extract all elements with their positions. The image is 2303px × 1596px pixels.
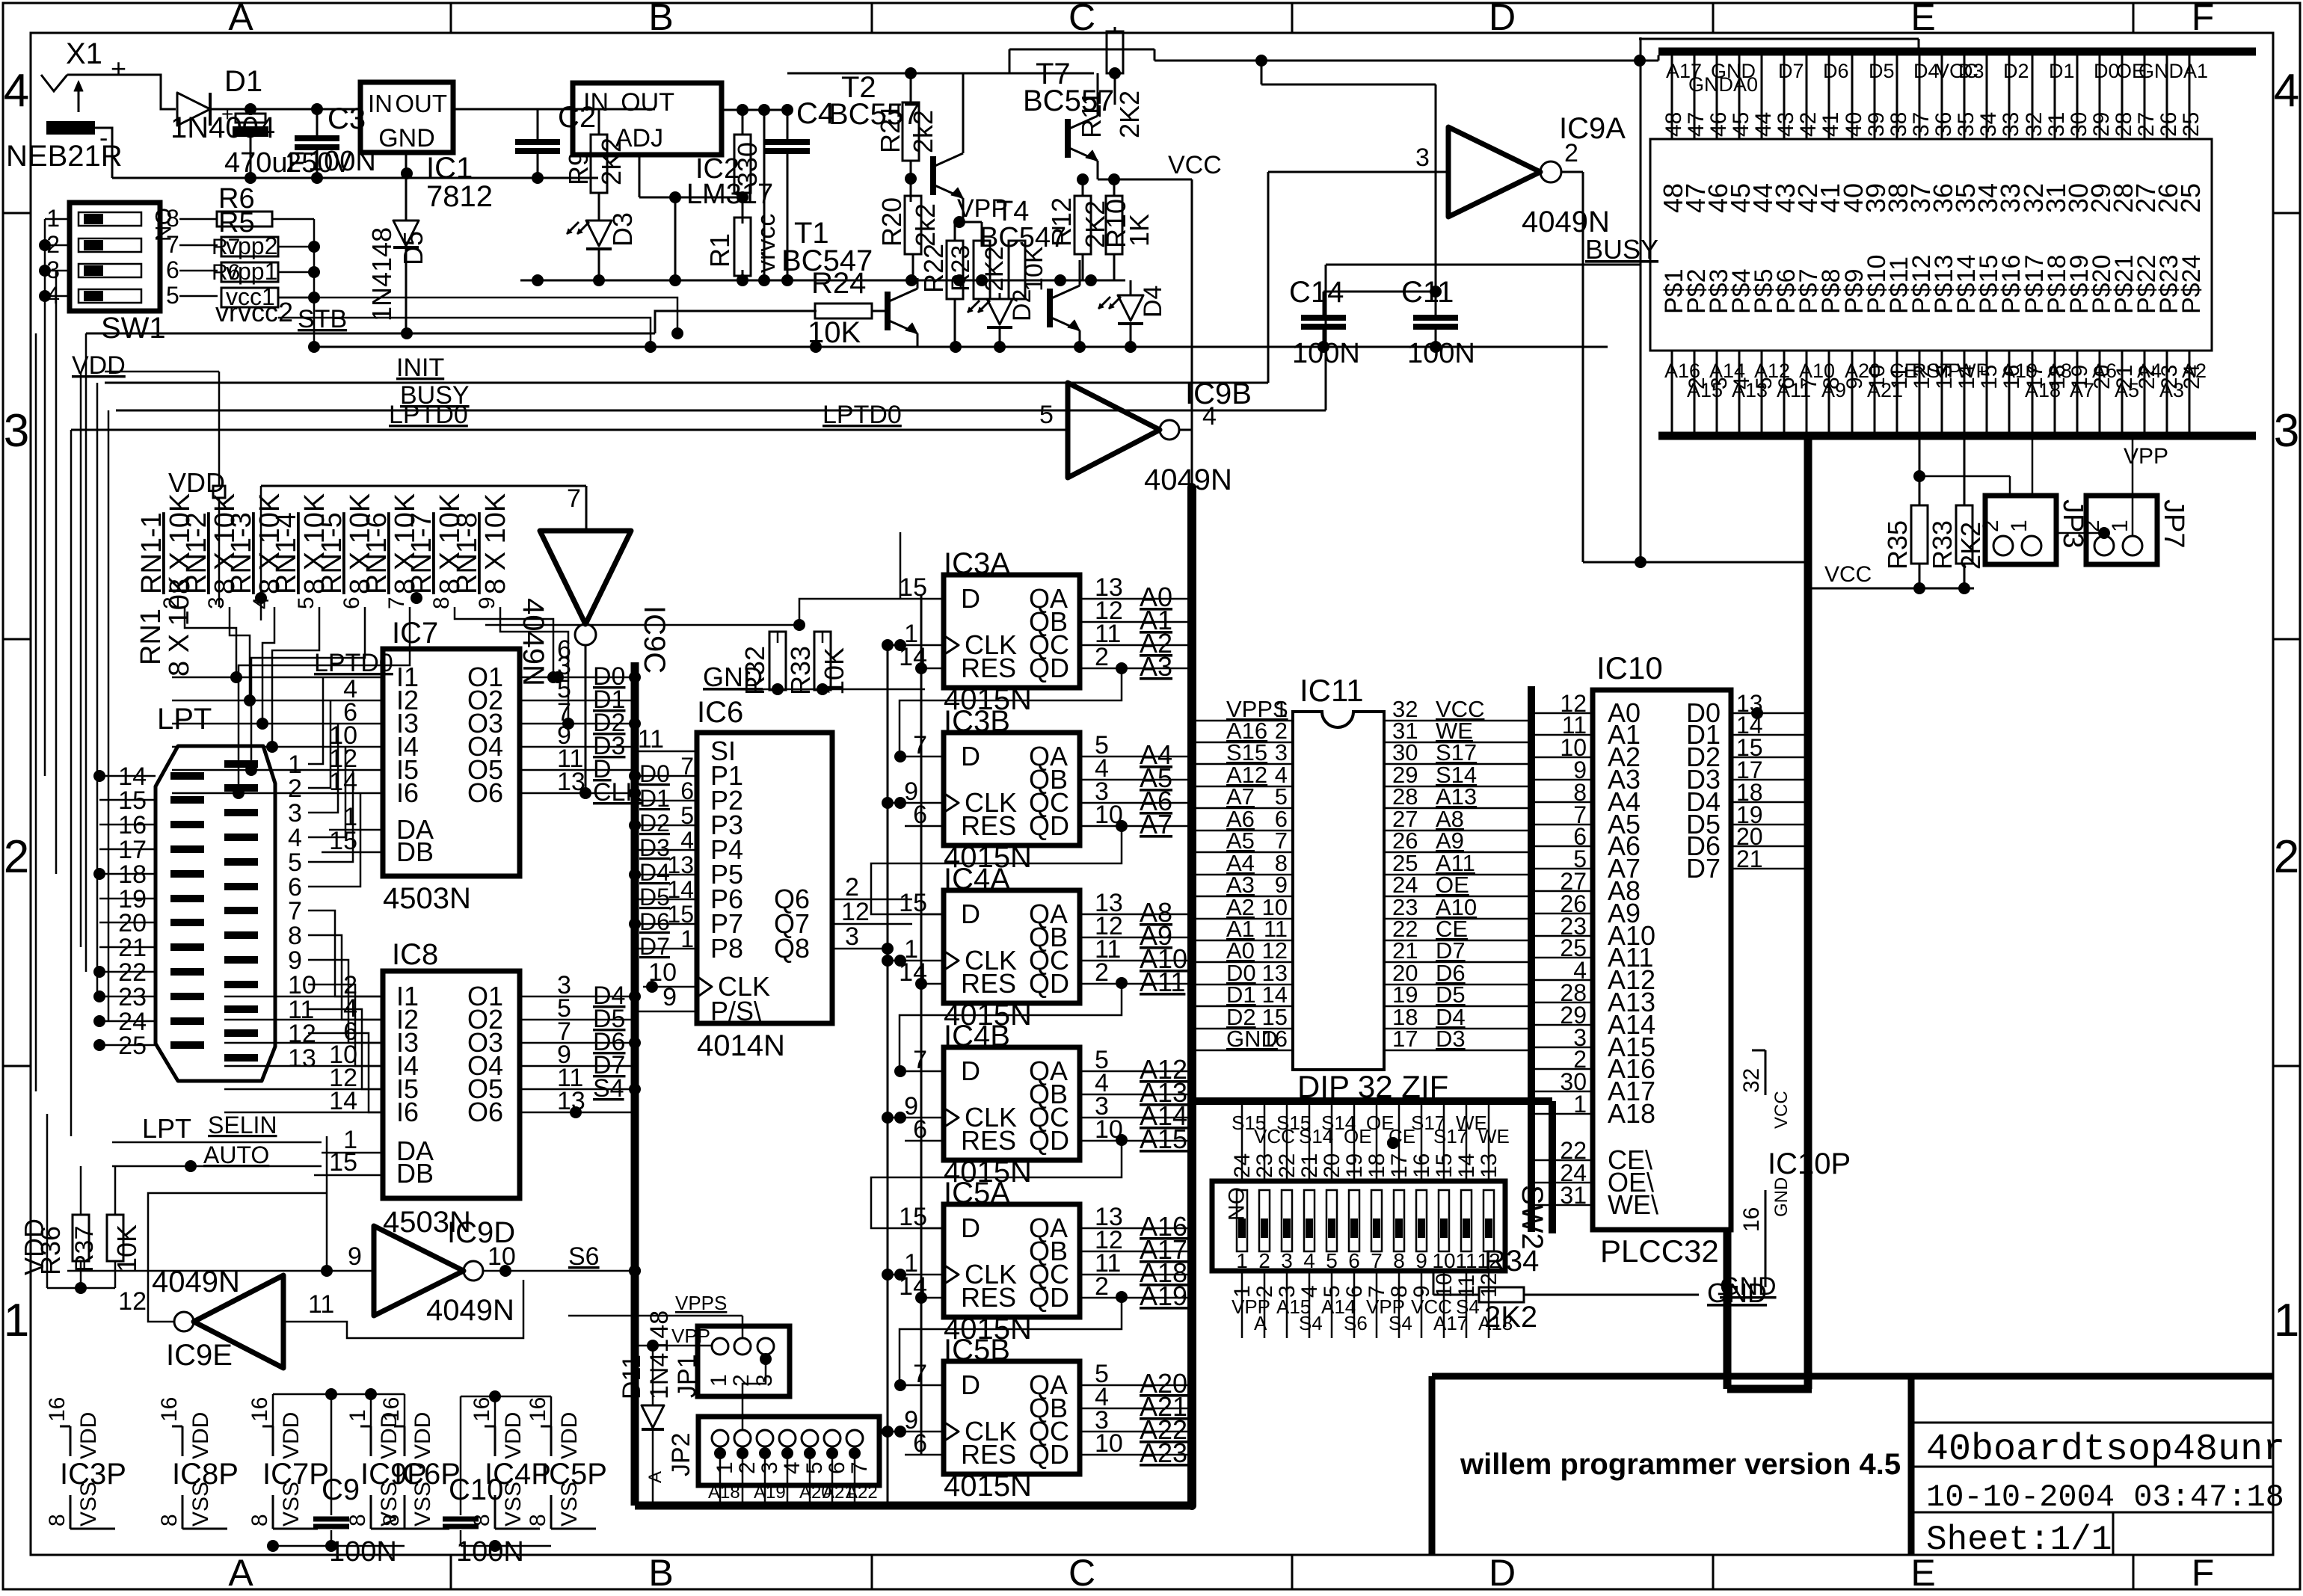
- svg-text:RES: RES: [961, 653, 1016, 683]
- svg-text:31: 31: [1560, 1182, 1587, 1209]
- svg-text:2: 2: [1095, 958, 1109, 987]
- svg-text:S4: S4: [593, 1074, 624, 1103]
- svg-text:25: 25: [2175, 183, 2206, 213]
- svg-text:IC3A: IC3A: [944, 547, 1010, 580]
- svg-text:VSS: VSS: [501, 1482, 526, 1526]
- svg-text:6: 6: [680, 777, 694, 804]
- svg-text:1: 1: [1573, 1091, 1587, 1118]
- svg-text:RN1: RN1: [135, 608, 167, 665]
- svg-text:4049N: 4049N: [1522, 206, 1610, 238]
- svg-text:25: 25: [2179, 112, 2204, 137]
- svg-text:D5: D5: [398, 231, 428, 265]
- svg-text:1K: 1K: [1124, 214, 1154, 247]
- svg-text:7: 7: [847, 1461, 872, 1474]
- svg-text:R36: R36: [35, 1226, 66, 1275]
- svg-text:R21: R21: [875, 104, 905, 153]
- svg-text:A: A: [1254, 1312, 1267, 1334]
- svg-text:16: 16: [1262, 1026, 1288, 1052]
- svg-text:15: 15: [899, 1203, 927, 1231]
- svg-text:A: A: [228, 0, 253, 38]
- svg-text:IC10: IC10: [1596, 650, 1663, 685]
- svg-text:8 X 10K: 8 X 10K: [164, 576, 195, 677]
- svg-text:E: E: [1910, 0, 1935, 38]
- svg-text:7: 7: [913, 731, 927, 760]
- svg-text:13: 13: [288, 1044, 316, 1073]
- svg-text:willem programmer version 4.5: willem programmer version 4.5: [1460, 1448, 1901, 1481]
- svg-text:6: 6: [825, 1461, 849, 1474]
- svg-text:13: 13: [667, 851, 694, 878]
- svg-text:QD: QD: [1029, 1439, 1069, 1470]
- svg-text:IC7: IC7: [392, 617, 438, 650]
- svg-text:RES: RES: [961, 1282, 1016, 1313]
- svg-text:100N: 100N: [329, 1536, 397, 1568]
- svg-text:D7: D7: [639, 933, 670, 960]
- svg-text:8: 8: [379, 1514, 404, 1526]
- svg-text:6: 6: [339, 597, 364, 609]
- svg-text:48: 48: [1661, 112, 1686, 137]
- svg-text:5: 5: [166, 282, 179, 309]
- svg-text:D6: D6: [1823, 60, 1849, 82]
- svg-text:ON: ON: [1223, 1187, 1248, 1221]
- svg-text:D2: D2: [639, 810, 670, 836]
- svg-text:2: 2: [735, 1461, 760, 1474]
- svg-text:A3: A3: [1140, 651, 1172, 682]
- svg-text:RES: RES: [961, 1439, 1016, 1470]
- svg-text:IC4B: IC4B: [944, 1020, 1010, 1053]
- svg-text:15: 15: [667, 901, 694, 928]
- svg-text:6: 6: [166, 256, 179, 283]
- svg-text:VCC: VCC: [1168, 151, 1222, 179]
- svg-text:IC9D: IC9D: [447, 1216, 515, 1249]
- svg-text:+: +: [221, 102, 233, 126]
- svg-text:2K2: 2K2: [1114, 90, 1145, 138]
- svg-text:RES: RES: [961, 1125, 1016, 1156]
- svg-text:D: D: [961, 741, 980, 771]
- svg-text:1: 1: [345, 1409, 370, 1422]
- svg-text:S4: S4: [1299, 1312, 1323, 1334]
- svg-text:40boardtsop48unr: 40boardtsop48unr: [1926, 1429, 2285, 1471]
- svg-text:VDD: VDD: [279, 1412, 304, 1459]
- svg-text:IN: IN: [368, 90, 393, 117]
- svg-text:34: 34: [1976, 112, 2001, 137]
- svg-text:A23: A23: [1140, 1438, 1187, 1468]
- svg-text:IC5A: IC5A: [944, 1177, 1010, 1210]
- svg-text:STB: STB: [298, 305, 347, 333]
- svg-text:IC11: IC11: [1300, 673, 1364, 708]
- svg-text:D2: D2: [1008, 289, 1036, 321]
- svg-text:1: 1: [4, 1295, 29, 1346]
- svg-text:D: D: [961, 1056, 980, 1086]
- svg-text:32: 32: [1739, 1068, 1764, 1093]
- svg-text:D3: D3: [1958, 60, 1984, 82]
- svg-text:5: 5: [1039, 401, 1054, 429]
- svg-text:O6: O6: [467, 777, 503, 808]
- svg-text:A: A: [645, 1471, 665, 1483]
- svg-text:A18: A18: [708, 1482, 740, 1503]
- svg-text:C10: C10: [449, 1473, 503, 1506]
- svg-text:8: 8: [157, 1514, 182, 1526]
- svg-text:LPT: LPT: [142, 1113, 191, 1144]
- svg-text:6: 6: [913, 1115, 927, 1144]
- svg-text:IC5B: IC5B: [944, 1334, 1010, 1367]
- svg-text:8: 8: [45, 1514, 70, 1526]
- svg-text:DIP 32 ZIF: DIP 32 ZIF: [1297, 1069, 1448, 1104]
- svg-text:SW1: SW1: [101, 312, 166, 345]
- svg-text:SW2: SW2: [1516, 1185, 1549, 1250]
- svg-text:2: 2: [4, 831, 29, 883]
- svg-text:QD: QD: [1029, 968, 1069, 999]
- svg-text:16: 16: [157, 1397, 182, 1422]
- svg-text:16: 16: [45, 1397, 70, 1422]
- svg-text:P/S\: P/S\: [710, 996, 761, 1026]
- svg-text:D: D: [1489, 0, 1516, 38]
- svg-text:42: 42: [1796, 112, 1821, 137]
- svg-text:11: 11: [308, 1290, 334, 1319]
- svg-text:11: 11: [1455, 1249, 1477, 1272]
- svg-text:R1: R1: [704, 233, 735, 268]
- svg-text:P$24: P$24: [2177, 255, 2206, 314]
- svg-text:DB: DB: [396, 1158, 434, 1189]
- svg-text:IC8: IC8: [392, 938, 438, 971]
- svg-text:46: 46: [1706, 112, 1731, 137]
- svg-text:27: 27: [2134, 112, 2159, 137]
- svg-text:D: D: [961, 583, 980, 614]
- svg-text:7: 7: [913, 1046, 927, 1074]
- svg-text:IC9C: IC9C: [638, 606, 671, 674]
- svg-text:VSS: VSS: [411, 1482, 435, 1526]
- svg-text:GND: GND: [1707, 1278, 1767, 1308]
- svg-text:36: 36: [1931, 112, 1956, 137]
- svg-text:OUT: OUT: [621, 88, 674, 117]
- svg-text:IC4A: IC4A: [944, 863, 1010, 896]
- svg-text:SELIN: SELIN: [208, 1112, 277, 1139]
- svg-text:8: 8: [429, 597, 454, 609]
- svg-text:100N: 100N: [1407, 338, 1475, 369]
- svg-text:LPT: LPT: [157, 703, 212, 736]
- svg-text:9: 9: [1415, 1249, 1427, 1272]
- svg-text:D7: D7: [1686, 853, 1721, 884]
- svg-text:P8: P8: [710, 933, 743, 964]
- svg-text:D1: D1: [224, 65, 262, 98]
- svg-text:D4: D4: [639, 859, 670, 886]
- svg-text:330: 330: [732, 142, 763, 187]
- svg-text:31: 31: [2044, 112, 2069, 137]
- svg-text:VDD: VDD: [188, 1412, 213, 1459]
- svg-text:4: 4: [4, 65, 29, 117]
- svg-text:F: F: [2192, 0, 2215, 38]
- svg-text:3: 3: [845, 922, 859, 951]
- svg-text:D3: D3: [639, 834, 670, 861]
- svg-text:S4: S4: [1389, 1312, 1412, 1334]
- svg-text:11: 11: [638, 725, 664, 754]
- svg-text:vrvcc2: vrvcc2: [215, 297, 293, 327]
- svg-text:QD: QD: [1029, 1125, 1069, 1156]
- svg-text:D11: D11: [618, 1355, 646, 1399]
- svg-text:30: 30: [2067, 112, 2091, 137]
- svg-text:2K2: 2K2: [596, 138, 627, 185]
- svg-text:10: 10: [1095, 1429, 1123, 1458]
- svg-text:39: 39: [1864, 112, 1889, 137]
- svg-text:BUSY: BUSY: [1585, 234, 1658, 265]
- svg-text:2: 2: [1095, 1272, 1109, 1301]
- svg-text:7: 7: [384, 597, 409, 609]
- svg-text:JP1: JP1: [673, 1354, 701, 1398]
- svg-text:RN1-5: RN1-5: [316, 512, 348, 594]
- svg-text:D1: D1: [639, 785, 670, 812]
- svg-text:32: 32: [2022, 112, 2047, 137]
- svg-text:GND: GND: [1771, 1177, 1792, 1217]
- svg-text:7: 7: [680, 753, 694, 780]
- svg-text:GND: GND: [2138, 60, 2183, 82]
- svg-text:A: A: [228, 1552, 253, 1592]
- svg-text:2: 2: [2274, 831, 2299, 883]
- svg-text:6: 6: [1348, 1249, 1360, 1272]
- svg-text:1: 1: [707, 1374, 731, 1387]
- svg-text:WE\: WE\: [1608, 1189, 1658, 1220]
- svg-text:43: 43: [1774, 112, 1798, 137]
- svg-text:4: 4: [2274, 65, 2299, 117]
- svg-text:B: B: [648, 0, 673, 38]
- svg-text:29: 29: [2089, 112, 2114, 137]
- svg-text:A22: A22: [846, 1482, 878, 1503]
- svg-text:16: 16: [247, 1397, 272, 1422]
- svg-text:VCC: VCC: [1771, 1091, 1792, 1129]
- svg-text:LPTD0: LPTD0: [822, 401, 902, 429]
- svg-text:6: 6: [913, 1429, 927, 1458]
- svg-text:R6: R6: [212, 260, 240, 285]
- svg-text:5: 5: [680, 802, 694, 829]
- svg-text:4049N: 4049N: [426, 1294, 514, 1327]
- svg-text:8: 8: [166, 205, 179, 232]
- svg-text:D7: D7: [1778, 60, 1804, 82]
- svg-text:2: 2: [1258, 1249, 1270, 1272]
- svg-text:RN1-8: RN1-8: [452, 512, 483, 594]
- svg-text:IC3B: IC3B: [944, 705, 1010, 738]
- svg-text:4: 4: [780, 1461, 805, 1474]
- svg-text:R34: R34: [1484, 1245, 1539, 1278]
- svg-text:R24: R24: [811, 267, 866, 300]
- svg-text:VCC: VCC: [1824, 562, 1872, 587]
- svg-text:WE: WE: [1478, 1125, 1510, 1147]
- svg-text:40: 40: [1842, 112, 1866, 137]
- svg-text:D: D: [961, 1369, 980, 1400]
- svg-text:GND: GND: [703, 662, 763, 692]
- svg-text:2k2: 2k2: [910, 203, 941, 247]
- svg-text:4: 4: [680, 827, 694, 854]
- svg-text:2: 2: [729, 1374, 754, 1387]
- svg-text:10-10-2004 03:47:18: 10-10-2004 03:47:18: [1926, 1479, 2284, 1515]
- svg-text:2: 2: [1564, 139, 1578, 167]
- svg-text:7: 7: [1371, 1249, 1383, 1272]
- svg-text:X1: X1: [66, 37, 102, 70]
- svg-text:VDD: VDD: [411, 1412, 435, 1459]
- svg-text:VPPS: VPPS: [675, 1292, 727, 1314]
- svg-text:16: 16: [379, 1397, 404, 1422]
- svg-text:R7: R7: [212, 235, 240, 259]
- svg-text:LPTD0: LPTD0: [314, 649, 393, 677]
- svg-text:OUT: OUT: [395, 90, 447, 117]
- svg-text:45: 45: [1729, 112, 1753, 137]
- svg-text:R23: R23: [947, 245, 975, 292]
- svg-text:4503N: 4503N: [383, 882, 471, 915]
- svg-text:R12: R12: [1046, 197, 1077, 247]
- svg-text:O6: O6: [467, 1097, 503, 1127]
- svg-text:QD: QD: [1029, 1282, 1069, 1313]
- svg-text:16: 16: [526, 1397, 550, 1422]
- svg-text:C: C: [1069, 1552, 1095, 1592]
- svg-text:INIT: INIT: [396, 354, 444, 382]
- svg-text:D6: D6: [639, 908, 670, 935]
- svg-text:3: 3: [204, 597, 229, 609]
- svg-text:VSS: VSS: [557, 1482, 582, 1526]
- svg-text:4049N: 4049N: [1144, 463, 1232, 496]
- svg-text:3: 3: [752, 1374, 777, 1387]
- svg-text:1: 1: [713, 1461, 737, 1474]
- svg-text:17: 17: [1392, 1026, 1418, 1052]
- svg-text:26: 26: [2156, 112, 2181, 137]
- svg-text:VSS: VSS: [279, 1482, 304, 1526]
- svg-text:RN1-6: RN1-6: [361, 512, 393, 594]
- svg-text:10: 10: [1432, 1249, 1455, 1272]
- svg-text:IN: IN: [583, 88, 609, 117]
- svg-text:28: 28: [2112, 112, 2136, 137]
- svg-text:QD: QD: [1029, 810, 1069, 841]
- svg-text:15: 15: [899, 573, 927, 602]
- svg-text:S6: S6: [1344, 1312, 1368, 1334]
- svg-text:14: 14: [329, 1087, 357, 1115]
- svg-text:C: C: [1069, 0, 1095, 38]
- svg-text:A2: A2: [2182, 360, 2207, 382]
- svg-text:13: 13: [557, 768, 585, 796]
- svg-text:7: 7: [913, 1360, 927, 1388]
- svg-text:1N4148: 1N4148: [366, 227, 397, 321]
- svg-text:8 X 10K: 8 X 10K: [480, 493, 511, 594]
- svg-text:1N4148: 1N4148: [645, 1310, 674, 1399]
- svg-text:35: 35: [1954, 112, 1978, 137]
- svg-text:8: 8: [1393, 1249, 1405, 1272]
- svg-text:A19: A19: [754, 1482, 786, 1503]
- svg-text:VDD: VDD: [76, 1412, 101, 1459]
- svg-text:VPP: VPP: [671, 1325, 710, 1347]
- svg-text:A0: A0: [1733, 73, 1758, 96]
- svg-text:5: 5: [1326, 1249, 1338, 1272]
- svg-text:1: 1: [2007, 520, 2032, 532]
- svg-text:1: 1: [1236, 1249, 1248, 1272]
- svg-text:RES: RES: [961, 810, 1016, 841]
- svg-text:3: 3: [2274, 405, 2299, 457]
- svg-text:4: 4: [1303, 1249, 1315, 1272]
- svg-text:B: B: [648, 1552, 673, 1592]
- svg-text:D1: D1: [2049, 60, 2075, 82]
- svg-text:GND: GND: [378, 124, 435, 152]
- svg-text:3: 3: [757, 1461, 782, 1474]
- svg-text:VSS: VSS: [76, 1482, 101, 1526]
- svg-text:R20: R20: [876, 197, 907, 247]
- svg-text:2k2: 2k2: [908, 110, 938, 153]
- svg-text:1: 1: [680, 925, 694, 952]
- svg-text:D3: D3: [607, 212, 638, 247]
- svg-text:PLCC32: PLCC32: [1600, 1233, 1719, 1269]
- svg-text:IC10P: IC10P: [1768, 1147, 1851, 1180]
- svg-text:BUSY: BUSY: [400, 381, 470, 410]
- svg-text:5: 5: [802, 1461, 827, 1474]
- svg-text:RN1-1: RN1-1: [136, 512, 167, 594]
- svg-text:3: 3: [1415, 144, 1430, 172]
- svg-text:AUTO: AUTO: [203, 1141, 269, 1168]
- svg-text:33: 33: [1999, 112, 2023, 137]
- svg-text:41: 41: [1818, 112, 1843, 137]
- svg-text:vrvcc: vrvcc: [752, 214, 781, 273]
- svg-text:D0: D0: [639, 760, 670, 787]
- svg-text:A15: A15: [1140, 1124, 1187, 1154]
- svg-text:10K: 10K: [1020, 246, 1048, 292]
- svg-text:R22: R22: [918, 244, 949, 293]
- svg-text:DB: DB: [396, 836, 434, 867]
- svg-text:1: 1: [2274, 1295, 2299, 1346]
- svg-text:6: 6: [913, 801, 927, 829]
- svg-text:R37: R37: [70, 1226, 99, 1272]
- svg-text:JP2: JP2: [667, 1432, 695, 1476]
- svg-text:37: 37: [1909, 112, 1934, 137]
- svg-text:A1: A1: [2183, 60, 2208, 82]
- svg-text:R35: R35: [1882, 520, 1913, 570]
- svg-text:R33: R33: [1927, 520, 1958, 570]
- svg-text:D2: D2: [2003, 60, 2029, 82]
- svg-text:16: 16: [470, 1397, 494, 1422]
- svg-text:A18: A18: [1608, 1098, 1655, 1129]
- svg-text:7812: 7812: [426, 180, 493, 213]
- svg-text:A7: A7: [1140, 809, 1172, 839]
- svg-text:A11: A11: [1140, 967, 1185, 997]
- svg-text:1: 1: [2108, 520, 2133, 532]
- svg-text:D5: D5: [639, 884, 670, 911]
- svg-text:R9: R9: [563, 151, 594, 185]
- svg-text:5: 5: [294, 597, 319, 609]
- svg-text:D5: D5: [1869, 60, 1895, 82]
- svg-text:15: 15: [1977, 365, 2002, 389]
- svg-text:4014N: 4014N: [697, 1029, 785, 1062]
- svg-text:I6: I6: [396, 1097, 419, 1127]
- svg-text:2K2: 2K2: [980, 247, 1009, 292]
- svg-text:RES: RES: [961, 968, 1016, 999]
- svg-text:+: +: [111, 53, 126, 84]
- svg-text:38: 38: [1887, 112, 1911, 137]
- svg-text:QD: QD: [1029, 653, 1069, 683]
- svg-text:JP7: JP7: [2158, 499, 2189, 548]
- svg-text:16: 16: [1739, 1207, 1764, 1232]
- svg-text:21: 21: [1736, 845, 1763, 872]
- svg-text:100N: 100N: [456, 1536, 524, 1568]
- svg-text:S4: S4: [1456, 1295, 1480, 1318]
- svg-text:D: D: [1489, 1552, 1516, 1592]
- svg-text:VPP: VPP: [2124, 444, 2168, 469]
- svg-text:7: 7: [166, 231, 179, 258]
- svg-text:F: F: [2192, 1552, 2215, 1592]
- svg-text:15: 15: [899, 889, 927, 917]
- svg-text:44: 44: [1751, 112, 1776, 137]
- svg-text:VDD: VDD: [557, 1412, 582, 1459]
- svg-text:C9: C9: [322, 1473, 360, 1506]
- svg-text:12: 12: [118, 1287, 147, 1316]
- svg-text:7: 7: [567, 484, 581, 513]
- svg-text:VDD: VDD: [501, 1412, 526, 1459]
- svg-text:Q8: Q8: [774, 933, 810, 964]
- svg-text:S6: S6: [568, 1242, 600, 1271]
- svg-text:RN1-4: RN1-4: [271, 512, 302, 594]
- svg-text:9: 9: [348, 1242, 362, 1271]
- svg-text:4015N: 4015N: [944, 1470, 1032, 1503]
- svg-text:D: D: [961, 899, 980, 929]
